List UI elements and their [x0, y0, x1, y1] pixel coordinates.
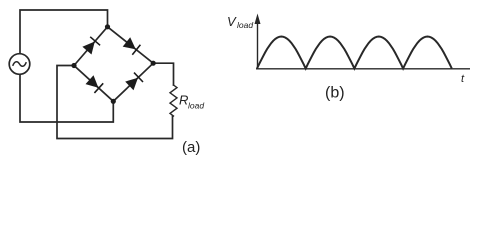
svg-text:t: t [461, 73, 465, 85]
svg-text:R: R [179, 93, 188, 108]
svg-text:V: V [227, 14, 237, 29]
svg-text:load: load [237, 20, 253, 30]
svg-text:load: load [188, 101, 204, 111]
svg-text:(b): (b) [325, 85, 345, 102]
svg-text:(a): (a) [182, 139, 200, 156]
